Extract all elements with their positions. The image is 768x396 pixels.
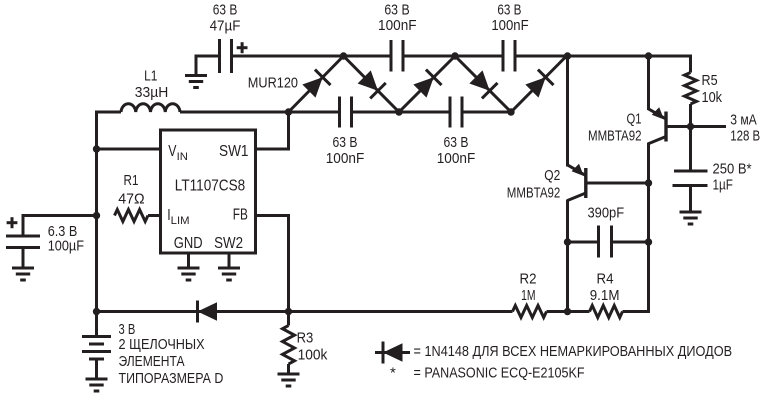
U1 pin label SW2: [214, 235, 243, 252]
resistor R3 stub: [287, 312, 290, 326]
C8 value label: [713, 160, 752, 193]
svg-text:100k: 100k: [298, 346, 328, 363]
C2 value label: [48, 223, 84, 255]
ground battery: [86, 379, 108, 391]
svg-text:MUR120: MUR120: [248, 74, 298, 91]
ground U1 GND pin: [178, 268, 200, 280]
wire Q2 emitter vertical: [566, 55, 569, 167]
svg-text:R3: R3: [297, 330, 314, 347]
capacitor C2 6.3V 100µF plates: [6, 236, 40, 248]
svg-text:FB: FB: [233, 207, 248, 224]
node dot bottom mult rail 1: [395, 108, 402, 115]
node dot FB bottom: [285, 308, 292, 315]
svg-text:100nF: 100nF: [491, 17, 528, 34]
ground U1 SW2 pin: [218, 268, 240, 280]
wire L1 right to node: [180, 111, 289, 114]
capacitor C6 100nF plates: [450, 97, 462, 128]
U1 pin label VIN: [168, 143, 188, 163]
R1 label: [118, 172, 144, 208]
svg-text:R4: R4: [597, 270, 614, 287]
svg-text:= PANASONIC ECQ-E2105KF: = PANASONIC ECQ-E2105KF: [414, 365, 585, 382]
wire multiplier bottom rail seg2: [352, 111, 451, 114]
U1 pin label GND: [174, 235, 203, 252]
svg-text:R1: R1: [124, 172, 139, 189]
wire C8 top stub: [689, 125, 692, 171]
L1 label: [135, 68, 169, 101]
svg-text:L1: L1: [144, 68, 157, 85]
output current label: [730, 112, 757, 129]
svg-text:ТИПОРАЗМЕРА D: ТИПОРАЗМЕРА D: [119, 370, 224, 387]
legend line 2 text: [414, 365, 585, 382]
diode D1 MUR120: [301, 70, 330, 99]
svg-text:1M: 1M: [521, 287, 535, 304]
C6 value label: [437, 134, 476, 167]
wire bottom rail seg3 after R4: [623, 310, 651, 313]
Q1 label: [588, 110, 642, 144]
svg-text:= 1N4148 ДЛЯ ВСЕХ НЕМАРКИРОВАН: = 1N4148 ДЛЯ ВСЕХ НЕМАРКИРОВАННЫХ ДИОДОВ: [414, 343, 733, 360]
U1 pin label ILIM: [167, 207, 189, 227]
legend asterisk: [390, 365, 396, 382]
U1 SW2 pin stub: [228, 253, 231, 267]
svg-text:ЭЛЕМЕНТА: ЭЛЕМЕНТА: [119, 353, 185, 370]
R3 bottom stub: [287, 364, 290, 373]
svg-text:R5: R5: [702, 72, 718, 89]
U1 part number label: [175, 178, 245, 195]
wire FB pin down to bottom rail: [256, 214, 289, 312]
wire multiplier diagonal zigzag: [289, 55, 568, 112]
node dot Q1 collector Q2 base: [645, 179, 652, 186]
battery label: [119, 321, 224, 387]
wire output: [691, 125, 727, 128]
R4 label: [590, 270, 620, 304]
svg-text:IN: IN: [177, 151, 188, 163]
svg-text:Q1: Q1: [627, 110, 642, 127]
svg-text:MMBTA92: MMBTA92: [588, 128, 642, 145]
C4 value label: [491, 2, 528, 35]
legend line 1 text: [414, 343, 733, 360]
wire bottom rail seg1: [97, 310, 513, 313]
R5 label: [702, 72, 723, 106]
node dot SW1/L1/D1: [285, 108, 292, 115]
U1 pin label FB: [233, 207, 248, 224]
svg-text:V: V: [168, 143, 176, 160]
output voltage label: [730, 128, 760, 145]
inductor L1: [121, 104, 180, 112]
svg-text:SW2: SW2: [214, 235, 243, 252]
wire multiplier bottom rail seg3: [462, 111, 511, 114]
R3 label: [297, 330, 328, 364]
C5 value label: [326, 134, 365, 167]
svg-text:1µF: 1µF: [713, 177, 733, 194]
node dot 390pF left: [564, 238, 571, 245]
wire multiplier bottom rail seg1: [289, 111, 340, 114]
wire top rail middle segment: [403, 55, 503, 58]
diode D4: [468, 69, 497, 98]
svg-text:100nF: 100nF: [326, 150, 365, 167]
node dot output: [687, 123, 694, 130]
svg-text:47µF: 47µF: [210, 18, 241, 35]
C3 value label: [378, 2, 417, 35]
wire 390pF right: [612, 241, 649, 244]
capacitor C5 100nF plates: [340, 97, 352, 128]
wire SW1 pin: [256, 112, 289, 151]
svg-text:LT1107CS8: LT1107CS8: [175, 178, 245, 195]
MUR120 label: [248, 74, 298, 91]
diode D2: [356, 69, 385, 98]
svg-text:128 В: 128 В: [730, 128, 760, 145]
wire top rail corner down to R5: [689, 55, 692, 73]
wire C1 left plate to ground: [196, 55, 221, 75]
svg-text:2 ЩЕЛОЧНЫХ: 2 ЩЕЛОЧНЫХ: [119, 336, 205, 353]
svg-text:*: *: [390, 365, 396, 382]
diode D5: [524, 70, 553, 99]
ground C8: [680, 212, 702, 224]
node dot bottom mult rail 2: [507, 108, 514, 115]
node dot top rail 3: [564, 52, 571, 59]
svg-text:47Ω: 47Ω: [118, 191, 144, 208]
C2 bottom stub: [22, 248, 25, 268]
resistor R1 47Ω: [115, 210, 148, 222]
svg-text:MMBTA92: MMBTA92: [507, 185, 561, 202]
wire L1 left corner: [95, 111, 121, 151]
R2 label: [520, 270, 537, 304]
node dot battery junction: [93, 308, 100, 315]
transistor Q2 MMBTA92: [568, 164, 586, 201]
wire bottom rail seg2 R2 to R4: [547, 310, 590, 313]
U1 GND pin stub: [187, 253, 190, 267]
svg-text:63 В: 63 В: [384, 2, 409, 19]
wire R5 bottom stub: [689, 104, 692, 128]
svg-text:63 В: 63 В: [333, 134, 358, 151]
svg-text:100nF: 100nF: [437, 150, 476, 167]
svg-text:9.1M: 9.1M: [590, 287, 620, 304]
wire Q1 emitter vertical: [647, 55, 650, 111]
wire left rail vertical: [95, 149, 98, 313]
svg-text:63 В: 63 В: [497, 2, 521, 19]
wire R1 to ILIM pin: [148, 214, 161, 217]
ground C2: [12, 268, 34, 280]
node dot Q2 collector bottom: [564, 308, 571, 315]
wire C2 top to ILIM junction: [23, 214, 97, 236]
svg-text:LIM: LIM: [171, 215, 190, 227]
capacitor C1 63V 47µF plates: [220, 39, 232, 73]
wire right vertical R4 to Q1 collector: [647, 143, 650, 313]
resistor R4 9.1M: [590, 306, 623, 318]
legend diode symbol: [375, 342, 410, 364]
capacitor C7 390pF plates: [599, 226, 612, 258]
svg-text:63 В: 63 В: [213, 2, 238, 19]
wire C8 bottom stub: [689, 186, 692, 212]
node dot top rail 1: [340, 52, 347, 59]
C2 polarity plus sign: [7, 217, 18, 228]
wire top rail right segment: [515, 55, 692, 58]
wire top rail left segment: [232, 55, 392, 58]
capacitor C4 100nF plates: [503, 40, 515, 72]
ground R3: [278, 374, 300, 386]
node dot 390pF right: [645, 238, 652, 245]
transistor Q1 MMBTA92: [648, 107, 666, 144]
Q2 label: [507, 167, 561, 202]
resistor R3 100k: [283, 326, 295, 365]
svg-text:33µH: 33µH: [135, 84, 169, 101]
U1 pin label SW1: [219, 143, 249, 160]
node dot top rail 4 Q1 emitter: [645, 52, 652, 59]
capacitor C8 250V 1µF plates: [673, 171, 708, 186]
svg-text:SW1: SW1: [219, 143, 249, 160]
wire VIN pin: [97, 148, 161, 151]
svg-text:100nF: 100nF: [378, 17, 417, 34]
wire Q2 collector vertical: [566, 200, 569, 314]
svg-text:Q2: Q2: [544, 167, 560, 184]
svg-text:390pF: 390pF: [587, 205, 624, 222]
C1 value label: [210, 2, 241, 35]
diode D3: [412, 70, 441, 99]
svg-text:10k: 10k: [702, 89, 723, 106]
IC U1 LT1107CS8 box: [161, 130, 256, 253]
svg-text:63 В: 63 В: [444, 134, 469, 151]
capacitor C3 100nF plates: [391, 40, 403, 72]
C1 polarity plus sign: [237, 42, 248, 53]
wire 390pF left: [568, 241, 599, 244]
node dot VIN junction: [93, 145, 100, 152]
node dot top rail 2: [451, 52, 458, 59]
resistor R2 1M: [513, 306, 547, 318]
svg-text:100µF: 100µF: [48, 238, 84, 255]
wire Q1 base to R5 node: [666, 125, 691, 128]
svg-text:3 мА: 3 мА: [730, 112, 757, 129]
diode D6 feedback: [198, 301, 218, 323]
battery BT1 3V: [82, 312, 111, 379]
C7 value label: [587, 205, 624, 222]
resistor R5 10k: [685, 73, 697, 104]
svg-text:GND: GND: [174, 235, 203, 252]
ground C1: [185, 76, 207, 88]
wire Q2 base to Q1 collector line: [586, 182, 649, 185]
node dot ILIM junction: [93, 212, 100, 219]
svg-text:R2: R2: [520, 270, 537, 287]
svg-text:250 В*: 250 В*: [713, 160, 752, 177]
